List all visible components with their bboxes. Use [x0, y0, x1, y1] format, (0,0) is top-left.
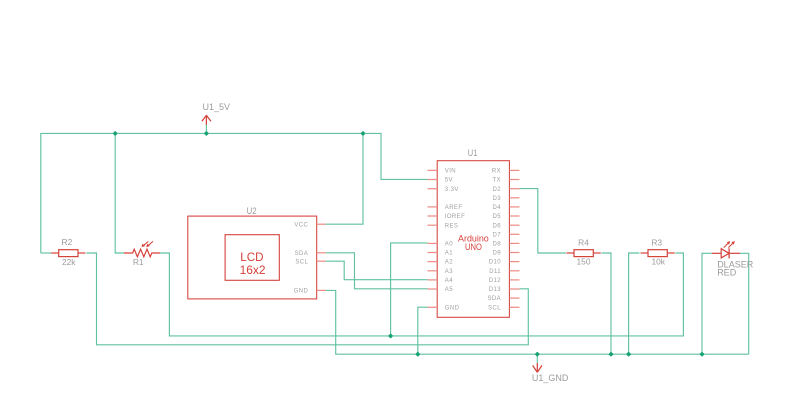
svg-text:U1_GND: U1_GND: [532, 373, 569, 383]
svg-text:D4: D4: [493, 205, 502, 211]
svg-text:A3: A3: [445, 269, 453, 275]
svg-text:D2: D2: [493, 187, 502, 193]
svg-text:R4: R4: [578, 238, 589, 248]
svg-text:A4: A4: [445, 278, 453, 284]
svg-text:D8: D8: [493, 242, 502, 248]
svg-text:U1: U1: [468, 148, 478, 158]
svg-text:RX: RX: [492, 169, 501, 175]
svg-text:U1_5V: U1_5V: [203, 102, 231, 112]
svg-text:UNO: UNO: [465, 241, 482, 252]
svg-text:A5: A5: [445, 287, 453, 293]
svg-text:U2: U2: [247, 206, 257, 216]
svg-text:D11: D11: [489, 269, 501, 275]
svg-text:D7: D7: [493, 232, 502, 238]
svg-text:D12: D12: [489, 278, 501, 284]
svg-text:22k: 22k: [62, 257, 76, 267]
svg-text:10k: 10k: [651, 256, 665, 266]
svg-text:SDA: SDA: [487, 296, 501, 302]
svg-text:IOREF: IOREF: [445, 214, 465, 220]
svg-text:D9: D9: [493, 251, 502, 257]
svg-text:SCL: SCL: [295, 259, 308, 265]
svg-text:RES: RES: [445, 223, 459, 229]
svg-text:R3: R3: [651, 238, 662, 248]
svg-text:GND: GND: [294, 289, 309, 295]
svg-text:AREF: AREF: [445, 205, 463, 211]
svg-text:D10: D10: [489, 260, 501, 266]
svg-text:D3: D3: [493, 196, 502, 202]
svg-text:150: 150: [577, 256, 591, 266]
svg-text:RED: RED: [717, 267, 737, 277]
svg-text:SCL: SCL: [488, 305, 501, 311]
svg-text:A1: A1: [445, 251, 453, 257]
svg-text:A0: A0: [445, 242, 453, 248]
svg-text:R1: R1: [133, 257, 144, 267]
svg-text:3.3V: 3.3V: [445, 187, 459, 193]
svg-text:VCC: VCC: [294, 222, 308, 228]
svg-text:R2: R2: [62, 237, 73, 247]
svg-text:16x2: 16x2: [240, 263, 266, 277]
svg-text:SDA: SDA: [295, 251, 309, 257]
svg-text:D5: D5: [493, 214, 502, 220]
svg-text:5V: 5V: [445, 178, 453, 184]
svg-text:D6: D6: [493, 223, 502, 229]
svg-text:TX: TX: [493, 178, 501, 184]
svg-text:VIN: VIN: [445, 169, 456, 175]
svg-text:A2: A2: [445, 260, 453, 266]
svg-text:GND: GND: [445, 305, 460, 311]
svg-text:D13: D13: [489, 287, 501, 293]
